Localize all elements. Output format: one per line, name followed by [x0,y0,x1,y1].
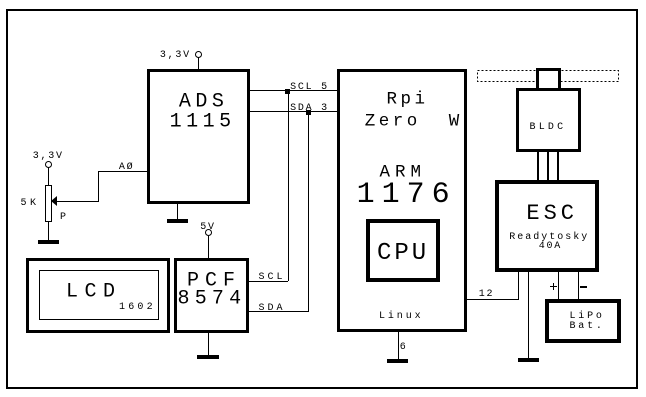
wire SDA vertical to PCF [308,112,309,312]
supply 3,3V node (potentiometer) [45,161,52,168]
wire ESC GND [528,272,529,359]
label 1176 [357,180,457,210]
wire ESC + to battery [558,272,559,299]
label ESC [526,203,578,225]
wire motor phase C [557,152,559,180]
wire 3,3V to ADS VDD [198,57,199,69]
wire A0 vertical [98,171,99,202]
junction SDA [306,110,311,115]
supply 3,3V node (ADS) [195,51,202,58]
CPU block [366,219,440,282]
wire A0 to ADS [98,171,147,172]
pin number 12 [479,290,495,300]
ground (ADS) [167,219,188,223]
label Readytosky [509,233,589,243]
label + [550,286,557,287]
label 5K [21,199,40,209]
motor M1 BLDC [516,88,581,152]
wire ADS GND [177,203,178,219]
SBC U2 Raspberry Pi Zero W [337,69,467,332]
label 1115 [170,112,236,132]
battery BT1 LiPo [545,299,621,343]
label CPU [377,242,429,266]
potentiometer wiper arrow [51,196,57,206]
motor shaft [536,68,561,90]
wire Rpi pin 6 to ground [398,332,399,360]
label LCD [66,282,122,302]
label 40A [539,242,562,252]
ground (ESC) [518,358,539,362]
label SDA 3 [290,104,329,114]
wire SCL vertical to PCF [288,91,289,281]
wire 5V to PCF [208,236,209,258]
LCD display LCD1602 [26,258,170,333]
ground (PCF) [197,355,219,359]
potentiometer P 5K body [45,185,52,222]
LCD screen inner rect [39,270,159,320]
wire 3,3V to pot top [48,167,49,185]
label 1602 [119,303,156,313]
label - [580,286,587,288]
label BLDC [530,123,567,133]
label P [60,213,68,223]
label SDA (PCF pin) [259,304,286,314]
label Zero W [365,114,463,132]
label A0 [119,163,135,173]
ESC Readytosky 40A [495,180,599,272]
wire PCF SDA pin [249,311,309,312]
ground (potentiometer) [38,240,59,244]
label ARM [380,164,427,182]
label Linux [379,312,424,322]
wire SCL net (ADS to Rpi pin 5) [250,90,337,91]
ADC U1 ADS1115 [147,69,250,204]
wire PCF SCL pin [249,281,288,282]
junction SCL [285,89,290,94]
wire Rpi pin 12 horizontal [467,299,519,300]
label 3,3V (ADS supply) [160,51,191,61]
wire PCF GND [208,333,209,356]
label 3,3V (pot supply) [33,152,64,162]
label PCF [187,271,241,291]
wire ESC - to battery [578,272,579,299]
wire motor phase A [537,152,539,180]
propeller (dashed outline) [477,70,620,83]
label Bat. [570,322,605,332]
ground (Rpi pin 6) [387,359,408,363]
label 8574 [178,289,247,309]
wire motor phase B [547,152,549,180]
label SCL 5 [290,83,329,93]
pin number 6 [400,343,408,353]
label 5V [200,223,216,233]
label SCL (PCF pin) [259,273,286,283]
label LiPo [570,312,605,322]
wire A0 wiper horizontal [56,201,98,202]
label ADS [179,92,229,112]
IO expander PCF8574 [174,258,249,333]
wire pot bottom to ground [48,222,49,240]
wire SDA net (ADS to Rpi pin 3) [250,111,337,112]
supply 5V node (PCF) [205,229,212,236]
wire pin 12 vertical to ESC [518,272,519,300]
label Rpi [387,91,429,109]
